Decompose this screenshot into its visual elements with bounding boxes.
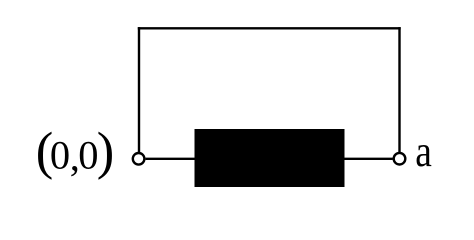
generic black-box component bbox=[195, 129, 345, 187]
node (0,0) open terminal bbox=[133, 153, 145, 165]
svg-text:a: a bbox=[415, 127, 432, 175]
label a bbox=[415, 127, 432, 175]
node a open terminal bbox=[394, 153, 406, 165]
svg-text:): ) bbox=[97, 123, 114, 181]
label (0,0) bbox=[36, 123, 115, 181]
wire right vertical bbox=[398, 27, 400, 152]
wire left node to box bbox=[146, 158, 195, 160]
svg-text:0: 0 bbox=[50, 133, 70, 178]
wire top horizontal bbox=[138, 27, 401, 29]
wire left vertical bbox=[138, 27, 140, 152]
wire box to right node bbox=[344, 158, 393, 160]
svg-text:0: 0 bbox=[78, 133, 98, 178]
